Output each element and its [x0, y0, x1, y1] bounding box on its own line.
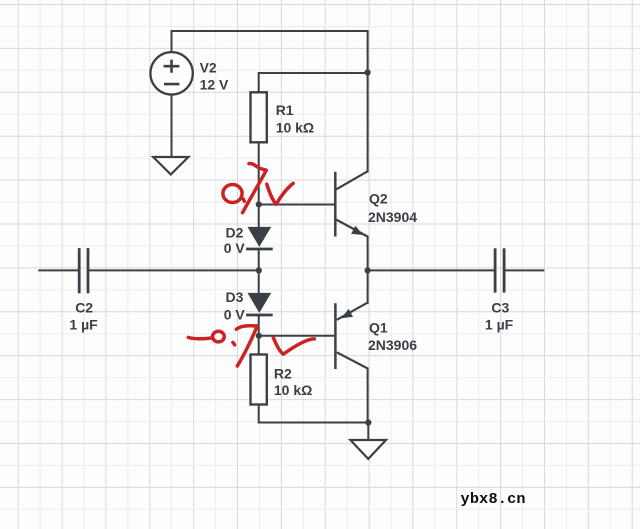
diode D3 — [246, 293, 273, 315]
svg-text:D3: D3 — [226, 289, 244, 305]
transistor Q2 — [335, 171, 367, 236]
wire input line left of C2 — [39, 269, 79, 271]
wire D2 cathode to node B — [258, 249, 260, 270]
wire collector drop to Q2 — [367, 73, 369, 172]
svg-text:12 V: 12 V — [200, 76, 229, 92]
capacitor C2 — [79, 248, 88, 293]
ground bottom — [350, 440, 386, 459]
label Q2 2N3904 — [368, 190, 417, 224]
svg-text:Q2: Q2 — [369, 190, 388, 206]
label C2 1 uF — [69, 299, 98, 332]
diode D2 — [246, 227, 273, 249]
wire Q2 emitter drop to output node — [367, 237, 369, 271]
node B junction input — [256, 267, 262, 273]
label Q1 2N3906 — [368, 320, 417, 353]
label D2 0 V — [224, 224, 246, 256]
capacitor C3 — [495, 248, 504, 292]
svg-text:ybx8.cn: ybx8.cn — [461, 490, 526, 508]
wire R1 top tee to V+ rail — [259, 73, 368, 92]
svg-text:R2: R2 — [274, 366, 292, 382]
svg-text:0 V: 0 V — [224, 240, 246, 256]
node ground junction — [365, 419, 371, 425]
resistor R1 — [251, 92, 267, 142]
resistor R2 — [251, 355, 267, 405]
svg-text:10 kΩ: 10 kΩ — [276, 120, 314, 136]
annotation 0.7v red handwriting — [223, 163, 293, 212]
wire Q1 collector drop — [367, 369, 369, 423]
svg-text:R1: R1 — [276, 102, 294, 118]
svg-text:V2: V2 — [200, 60, 217, 76]
label V2 12 V — [200, 60, 229, 93]
wire Q2 base — [259, 204, 336, 206]
label C3 1 uF — [485, 300, 514, 333]
svg-text:1 µF: 1 µF — [485, 317, 514, 333]
wire D3 cathode to node C — [258, 315, 260, 336]
node output junction — [365, 267, 371, 273]
svg-text:C3: C3 — [491, 300, 509, 316]
svg-text:0 V: 0 V — [224, 307, 246, 323]
ground under V2 — [153, 157, 188, 174]
label R1 10 kOhm — [276, 102, 314, 136]
svg-text:2N3906: 2N3906 — [368, 337, 417, 353]
svg-text:Q1: Q1 — [369, 320, 388, 336]
wire ground stub bottom — [367, 423, 369, 441]
node junction V+ rail R1 — [365, 69, 371, 75]
wire node A to D2 anode — [258, 204, 260, 228]
wire V2 minus to ground — [171, 94, 173, 157]
wire output node to Q1 emitter — [367, 270, 369, 302]
wire Q1 base — [259, 335, 336, 337]
annotation -0.7 check red handwriting — [188, 326, 314, 366]
wire input line C2 to node B — [88, 269, 259, 271]
wire output line right of C3 — [504, 269, 543, 271]
svg-text:1 µF: 1 µF — [69, 317, 98, 333]
label D3 0 V — [224, 289, 246, 323]
transistor Q1 — [335, 303, 367, 369]
node A junction 0.7V — [256, 201, 262, 207]
wire V+ rail: V2 top to Q2 collector branch — [172, 31, 368, 73]
svg-text:10 kΩ: 10 kΩ — [274, 382, 312, 398]
wire node C to R2 top — [258, 336, 260, 355]
wire output line to C3 — [368, 269, 496, 271]
node C junction -0.7V — [256, 333, 262, 339]
svg-text:2N3904: 2N3904 — [368, 209, 417, 225]
label R2 10 kOhm — [274, 366, 312, 399]
voltage source V2 — [150, 52, 192, 94]
svg-text:D2: D2 — [226, 224, 244, 240]
wire R2 bottom rail to ground node — [259, 405, 369, 423]
wire node B to D3 anode — [258, 270, 260, 293]
svg-text:C2: C2 — [75, 299, 93, 315]
wire R1 bottom to node A — [258, 142, 260, 204]
